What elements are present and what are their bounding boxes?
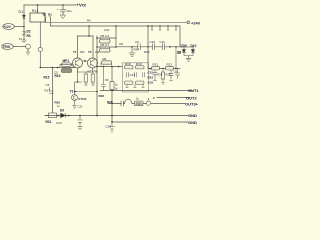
svg-text:R28: R28 [107,100,113,104]
diode pill on out3 [135,101,144,106]
oval connector +12V [3,24,15,30]
capacitor C10 [152,44,154,50]
wire rail B y26 [51,25,181,27]
terminal open circle [23,40,26,43]
svg-text:R6 C7: R6 C7 [101,43,110,47]
svg-text:R23: R23 [148,76,154,80]
wire T3 base chain [75,72,98,95]
svg-text:LN1: LN1 [104,28,110,32]
transistor T2 circle [88,58,98,68]
node out3 junction [111,103,113,105]
wire rail A y22.3 [46,21,189,23]
svg-text:+12V: +12V [3,25,11,29]
oval connector TRIG [2,44,14,50]
svg-text:R26: R26 [99,94,105,98]
svg-text:R31: R31 [46,120,52,124]
RC pair 2 [97,46,116,48]
svg-text:ZQ1: ZQ1 [136,102,142,106]
relay RL1 box [30,13,45,22]
svg-text:R4: R4 [87,19,91,23]
lamp circle on x41 [38,47,42,51]
svg-text:R15: R15 [144,50,150,54]
connector circle on out3 [146,101,150,105]
parallel RC lower pill [62,69,72,73]
resistor R27 vertical box [111,67,113,82]
ground under jack [26,52,30,55]
svg-text:P2: P2 [49,13,53,17]
wire T1 collector [77,36,79,58]
wire y46.5 to cap chain [116,46,180,48]
bypass stubs on rail B [151,26,177,30]
svg-text:P1: P1 [43,13,47,17]
svg-text:OUT1: OUT1 [188,88,199,93]
resistor R25 pill [166,66,174,70]
cap x80 to ground [78,116,83,130]
svg-text:D7: D7 [178,51,182,55]
svg-text:R9: R9 [105,78,109,82]
wire collector feed [78,26,94,36]
svg-text:+Vcc: +Vcc [77,3,88,8]
svg-text:R7: R7 [88,70,92,74]
wire trig [13,46,25,48]
svg-text:R8: R8 [94,70,98,74]
transistor T3 circle [72,95,78,101]
svg-text:C10: C10 [150,40,156,44]
svg-text:2N2: 2N2 [95,51,100,54]
resistor R24 pill [152,66,160,70]
svg-text:C13: C13 [130,73,136,77]
svg-text:R22: R22 [167,63,173,67]
ground under C2 [61,15,66,19]
emitter stubs T1 T2 [78,68,93,72]
svg-text:D9: D9 [60,109,64,113]
svg-text:C9: C9 [135,40,139,44]
wire bottom y122 [112,121,188,123]
svg-text:10u: 10u [67,9,72,13]
wire x113 vertical [111,104,113,123]
resistor pill above feed [101,63,112,67]
wire out2 y97.5 [157,97,190,99]
svg-text:D1: D1 [19,10,24,14]
svg-text:C9: C9 [174,70,178,74]
svg-text:GND: GND [188,120,197,125]
svg-text:C19: C19 [106,125,112,129]
cap C19 below [110,122,115,133]
svg-text:VD9: VD9 [181,44,187,48]
svg-text:C15: C15 [148,71,154,75]
svg-text:OUT3+: OUT3+ [185,101,199,106]
svg-text:TRIG: TRIG [3,45,11,49]
small cap to x53 [50,88,54,94]
resistor R26 vertical [162,70,164,72]
node junction 12V [23,26,25,28]
wire x176 drop [175,47,177,69]
ground under T3 [73,101,77,109]
svg-text:R17: R17 [45,89,51,93]
svg-text:RL1: RL1 [32,9,39,13]
wire T2 collector [92,36,94,58]
svg-text:+24V: +24V [191,20,200,25]
wire x41 vertical [39,22,41,68]
node between transistors [84,60,86,62]
wire out3 y103.5 [108,103,185,105]
svg-text:R24: R24 [158,73,163,77]
resistor R3 vertical [23,27,25,40]
right block wire y68.5 [148,68,180,70]
capacitor C2 [60,5,66,15]
RC pair 1 [97,37,116,39]
svg-text:C20: C20 [56,121,62,125]
wire relay top pin [37,5,39,13]
relay contact P2 [48,14,50,26]
svg-text:OUT2: OUT2 [186,95,197,100]
capacitor C15 vertical [153,70,157,81]
capacitor C9 [136,44,143,50]
svg-text:R5 C4: R5 C4 [101,34,110,38]
parallel RC upper pill MP1 [60,64,73,67]
svg-text:C5: C5 [54,71,58,75]
resistor drop x148 [147,26,149,69]
wire rail B corner down [179,26,181,47]
svg-text:C21: C21 [78,105,83,109]
svg-text:KT315: KT315 [79,97,87,101]
svg-text:T1: T1 [73,50,77,54]
svg-text:R30: R30 [55,101,61,105]
module pills row1 [125,66,134,69]
module box [123,63,149,92]
svg-text:T3: T3 [70,90,74,94]
svg-text:C3: C3 [19,37,23,41]
wire base line y67.5 [40,67,73,69]
svg-text:R8: R8 [103,57,107,61]
svg-text:C6: C6 [46,83,50,87]
svg-text:D10: D10 [191,44,197,48]
wire module feed y66.5 [97,66,122,68]
diode D1 [23,15,26,18]
svg-text:2N2: 2N2 [80,51,85,54]
wire +12V oval to relay line [14,26,24,28]
svg-text:R18: R18 [125,62,131,66]
wire out1 y90.5 [100,90,193,92]
module pills row2 [125,81,134,84]
svg-text:GND: GND [188,113,197,118]
node rail junction [37,4,39,6]
transistor T1 circle [73,58,83,68]
hop arc [125,99,132,103]
svg-text:R15: R15 [44,76,50,80]
node Vcc junction [62,4,64,6]
svg-text:R16: R16 [55,74,61,78]
node rail B x89 [88,25,90,27]
svg-text:R21: R21 [153,63,159,67]
terminal circle right [187,21,190,24]
wire x97 long vertical [96,36,98,116]
diode clamp VD9 VD10 [180,46,193,48]
module caps [127,73,145,78]
capacitor C on x103.5 [102,67,106,91]
svg-text:MP1: MP1 [63,59,70,63]
capacitor C17 vertical [176,69,180,79]
node y67.5 junctions [40,67,42,69]
wire top rail Vcc [24,4,76,6]
svg-text:C11: C11 [160,40,166,44]
wire bottom rail y115.5 [45,115,188,117]
ground under x132 [129,47,135,57]
capacitor C11 [162,44,164,50]
svg-text:C8: C8 [119,42,123,46]
diode D9 [61,113,66,117]
wire join x116 [115,26,117,47]
emitter resistor R8 [91,74,94,82]
svg-text:R3: R3 [27,34,31,38]
wire emitter join [78,71,93,73]
emitter resistor R7 [84,74,87,82]
svg-text:C16: C16 [148,81,154,85]
svg-text:T2: T2 [88,50,92,54]
jack circle X1 [26,44,31,49]
resistor box bottom left [49,113,57,118]
right edge terminal labels [185,20,201,125]
svg-text:R14: R14 [134,48,140,52]
svg-text:R19: R19 [136,62,142,66]
svg-text:R25: R25 [166,73,171,77]
relay contact P1 [43,14,45,23]
cap C18 on out3 [121,101,123,106]
capacitor C16 vertical [169,70,173,81]
wire left drop to relay [23,5,25,26]
wire x53 down [52,68,54,113]
nodes on cap chain [131,46,133,48]
